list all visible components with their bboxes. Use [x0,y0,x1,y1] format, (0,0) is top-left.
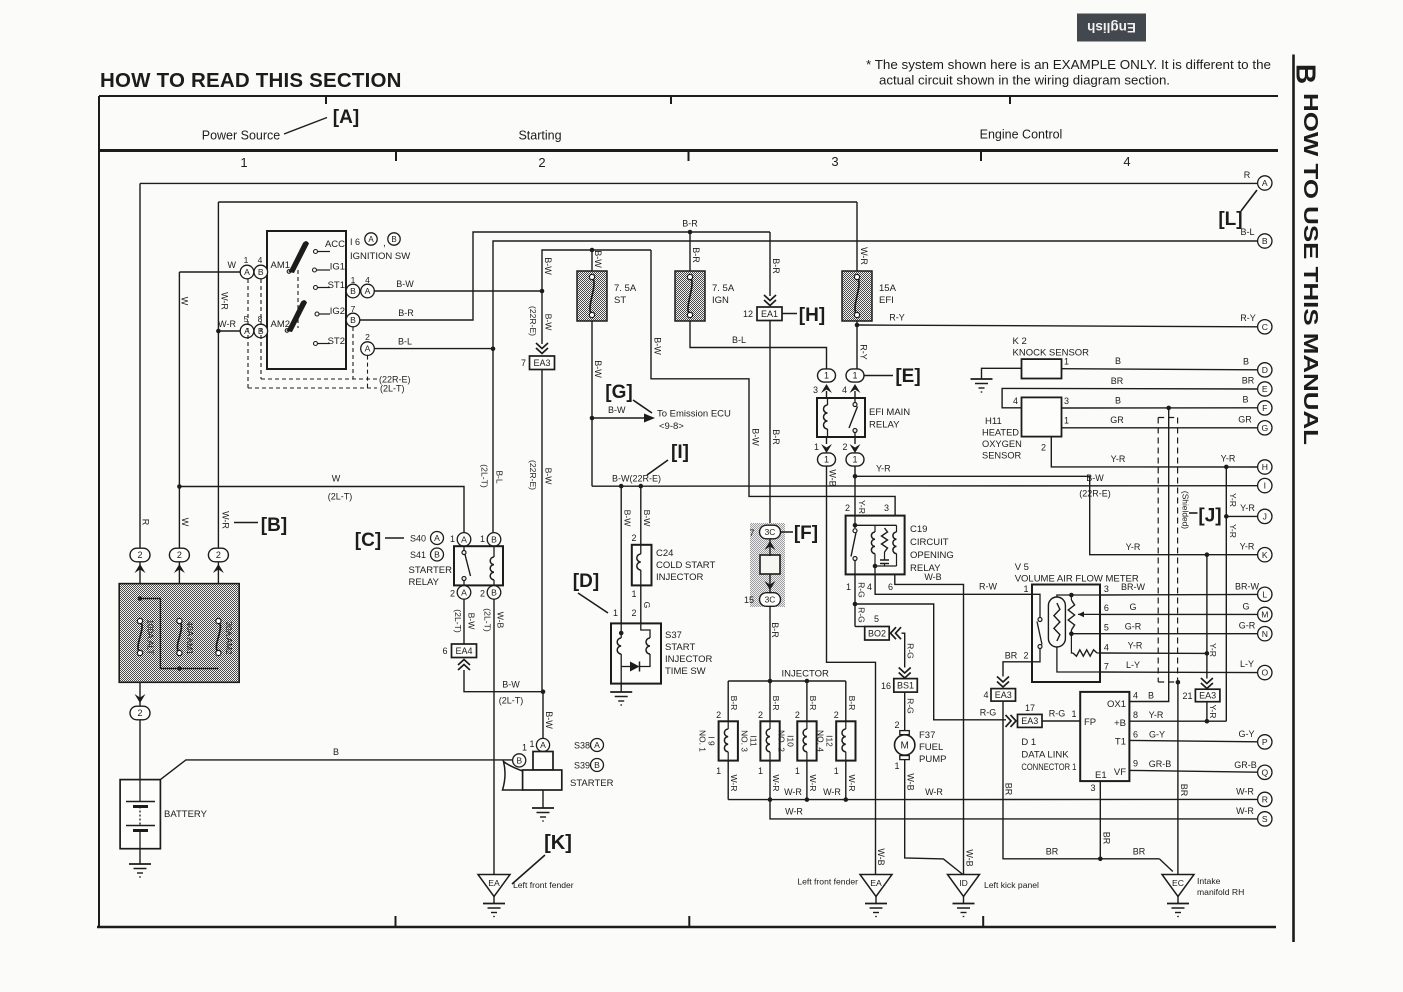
node junction injector3 top [805,679,810,684]
svg-text:I: I [1264,481,1266,491]
svg-text:manifold RH: manifold RH [1197,887,1244,897]
svg-text:VF: VF [1114,767,1126,778]
svg-text:1: 1 [351,275,356,285]
S37 internals [619,631,624,636]
dash from pin4 oval to [E] [865,375,894,377]
svg-text:B-W(22R-E): B-W(22R-E) [612,474,661,484]
svg-text:7: 7 [521,358,526,368]
wire B inside shield to data link connector [1129,408,1168,702]
ignition switch lever AM1 [289,241,310,273]
svg-text:R-Y: R-Y [1240,313,1256,323]
battery plates [126,801,155,803]
svg-text:B-W: B-W [653,337,663,355]
svg-text:COLD START: COLD START [656,560,715,571]
arrow up on W wire [174,564,185,573]
contact IG1 [313,268,317,272]
wire B-W down to starter pin A [542,692,544,739]
svg-text:V 5: V 5 [1015,562,1029,573]
tick on top line at 671 [670,96,672,104]
svg-text:L-Y: L-Y [1240,659,1254,669]
wire GR to terminal G [1062,427,1258,429]
svg-text:M: M [901,741,909,752]
node junction B-R above IGN fuse [688,230,693,235]
svg-text:1: 1 [852,371,857,381]
VAFM switch internals [1032,594,1040,617]
svg-text:W: W [332,474,341,484]
svg-text:W-R: W-R [808,774,818,791]
svg-text:B-W: B-W [467,613,477,631]
svg-text:B-R: B-R [847,696,857,711]
svg-text:Q: Q [1261,767,1268,777]
svg-text:S: S [1262,814,1268,824]
frame bottom line [97,926,1276,928]
node junction injector3 bottom [805,797,810,802]
svg-text:2: 2 [834,710,839,720]
wire BR to terminal E [1002,388,1258,407]
svg-text:BR: BR [1102,832,1112,845]
svg-text:Engine Control: Engine Control [980,128,1063,142]
svg-text:1: 1 [846,582,851,592]
svg-text:1: 1 [1064,357,1069,367]
svg-text:EA4: EA4 [455,646,472,656]
svg-text:B-W: B-W [608,405,626,415]
double chevron above BS1 [899,668,911,679]
svg-text:A: A [540,740,546,750]
wire R-G from C19 pin1 [854,574,856,626]
svg-text:B: B [333,747,339,757]
diagram frame top line [99,95,1278,97]
wire below EFI fuse [856,321,858,369]
svg-text:B-L: B-L [398,337,412,347]
svg-text:C: C [1262,322,1268,332]
svg-text:RELAY: RELAY [869,420,900,431]
wire R-G to BO2 [855,626,865,628]
svg-text:R: R [1262,794,1268,804]
svg-text:STARTER: STARTER [570,778,614,789]
svg-text:K: K [1262,550,1268,560]
ground symbol below battery [129,863,151,865]
svg-text:A: A [461,534,467,544]
svg-text:(2L-T): (2L-T) [328,492,353,502]
svg-text:ST: ST [614,295,626,306]
svg-text:A: A [368,235,374,244]
svg-text:ACC: ACC [325,239,345,250]
svg-text:1: 1 [894,761,899,771]
injector NO. 3 box [760,721,779,760]
svg-text:B-W: B-W [593,250,603,268]
svg-text:[A]: [A] [333,107,359,128]
wire G to terminal M [1100,613,1258,615]
node junction VAFM pot bottom [1069,631,1074,636]
svg-text:12: 12 [743,309,753,319]
frame left edge [98,96,100,927]
svg-text:B: B [391,235,396,244]
svg-text:2: 2 [842,442,847,452]
svg-text:1: 1 [834,766,839,776]
wire B-W to time switch pin1 [620,486,622,623]
EFI relay switch [853,403,857,407]
contact IG2 [315,312,319,316]
pointer line from EA to [K] [512,855,545,884]
svg-text:R-G: R-G [857,582,867,598]
svg-text:15: 15 [744,595,754,605]
svg-text:FP: FP [1084,717,1096,728]
svg-text:4: 4 [842,385,847,395]
wire B from battery to starter [160,760,512,780]
injector NO. 1 box [719,721,738,760]
svg-text:B: B [1262,236,1268,246]
svg-text:17: 17 [1025,703,1035,713]
svg-text:[I]: [I] [671,442,689,463]
wire knock sensor to ground [982,368,1022,379]
ground symbol at knock sensor [971,378,993,380]
starter relay switch [462,551,466,555]
terminal circle A [1258,176,1272,190]
svg-text:HEATED: HEATED [982,428,1019,438]
terminal oval 1 (pin3) EFI relay [818,369,836,382]
svg-text:EA: EA [870,878,882,888]
node junction 40A AM1 bottom [177,666,182,671]
connector box EA3 pin 7 [530,356,555,370]
svg-text:B-W: B-W [396,279,414,289]
svg-text:4: 4 [1013,396,1018,406]
svg-text:2: 2 [795,710,800,720]
svg-text:W: W [180,518,190,527]
injector NO. 2 lower wire [806,761,808,800]
wire W-R S row [770,800,1258,819]
tick below separator at 981 [980,151,982,162]
wire G-Y from T1 to terminal P [1129,740,1257,741]
svg-text:B: B [491,534,497,544]
EFI main relay box [817,398,865,437]
svg-text:actual circuit shown in the wi: actual circuit shown in the wiring diagr… [879,73,1170,88]
shield dashed bottom [1158,681,1176,683]
svg-text:A: A [244,326,250,336]
svg-text:[J]: [J] [1198,506,1221,527]
svg-text:2: 2 [758,710,763,720]
svg-text:EA3: EA3 [995,690,1012,700]
arrow up below 3C upper [765,541,776,550]
svg-text:+B: +B [1114,718,1126,729]
wire Y-R to terminal J [1226,515,1257,517]
wire B-W(22R-E) horizontal to terminal I [592,485,1258,488]
svg-text:Left kick panel: Left kick panel [984,880,1039,890]
svg-text:(22R-E): (22R-E) [528,306,538,336]
svg-text:I 6: I 6 [350,237,360,247]
svg-text:EA3: EA3 [1199,691,1216,701]
svg-text:T1: T1 [1115,737,1126,748]
svg-text:R-W: R-W [979,582,997,592]
heated oxygen sensor H11 box [1022,397,1062,436]
svg-text:8: 8 [1133,710,1138,720]
connector circle A starter relay top [457,533,471,547]
svg-text:W-B: W-B [906,773,916,790]
connector box EA1 pin 12 [757,307,782,321]
injector NO. 2 drop wire [806,681,808,721]
starter relay box [454,546,503,585]
svg-text:1: 1 [824,455,829,465]
svg-text:15A: 15A [879,283,897,294]
VAFM wiper arrow [1078,613,1100,615]
arrow down above 3C lower [765,581,776,590]
svg-text:B: B [1242,395,1248,405]
arrow down below fusible link block [135,694,146,703]
VAFM lamp bottom to pin7 [1057,647,1100,672]
svg-text:9: 9 [1133,759,1138,769]
start injector time switch S37 box [611,623,661,683]
node junction B-W at EA3 branch [540,289,545,294]
svg-text:B-L: B-L [495,470,505,484]
svg-text:R-G: R-G [1049,709,1066,719]
injector NO. 4 coil [845,721,847,729]
connector oval 2 on W-R wire [208,548,228,562]
svg-text:BATTERY: BATTERY [164,809,208,820]
svg-text:,: , [383,238,386,249]
svg-text:Y-R: Y-R [1228,524,1238,538]
svg-text:Y-R: Y-R [1240,503,1255,513]
injector NO. 3 lower wire [769,761,771,800]
double chevron above EA3 4 [997,677,1009,688]
svg-text:* The system shown here is an: * The system shown here is an EXAMPLE ON… [866,57,1271,72]
wire G-R to terminal N [1100,633,1258,635]
node junction time switch branch [639,484,644,489]
svg-text:1: 1 [758,766,763,776]
node junction injector4 bottom [844,797,849,802]
wire W-B from fuel pump to ID ground [905,760,964,875]
svg-text:3: 3 [813,385,818,395]
svg-text:INJECTOR: INJECTOR [782,669,829,680]
connector box BS1 [894,679,918,693]
svg-text:B-W: B-W [544,314,554,332]
terminal circle F [1258,401,1272,415]
terminal circle K [1258,548,1272,562]
3C connector shaded strip [750,523,785,607]
tick below separator at 396 [395,151,397,162]
internal bus of fusible link block [140,599,218,669]
svg-text:O: O [1261,668,1268,678]
dash line 3C to [F] [781,531,794,533]
svg-text:Y-R: Y-R [1240,542,1255,552]
svg-text:1: 1 [480,534,485,544]
svg-text:A: A [461,587,467,597]
svg-text:B-L: B-L [732,335,746,345]
svg-text:E: E [1262,384,1268,394]
starter ground wire [542,790,544,808]
English tab (inverted) [1077,14,1146,42]
C19 internals [853,523,858,528]
data link connector D1 box [1080,692,1129,781]
svg-text:R-G: R-G [857,607,867,623]
svg-text:2: 2 [631,608,636,618]
double chevron into EA3 7 [536,343,548,354]
arrow up pin3 [821,384,832,393]
wire below ST fuse [591,321,593,486]
connector oval 2 on R wire [130,548,150,562]
svg-text:B-R: B-R [398,308,414,318]
svg-text:R-G: R-G [906,643,916,659]
svg-text:Y-R: Y-R [1228,493,1238,507]
svg-text:M: M [1261,609,1268,619]
svg-text:K 2: K 2 [1013,336,1027,347]
fuel pump motor F37 [900,731,910,735]
battery box [120,780,160,849]
double chevron below EA4 [458,660,470,671]
connector box EA3 pin 4 [991,689,1016,702]
svg-text:B: B [1148,691,1154,701]
svg-text:B: B [350,315,356,325]
svg-text:R-Y: R-Y [859,344,869,360]
svg-text:6: 6 [888,582,893,592]
svg-text:W-R: W-R [220,292,230,310]
wire BR-W to terminal L [1100,593,1258,596]
sidebar divider line [1292,55,1295,943]
wire B-W up and right to fuse row [542,250,651,291]
node junction injector2 bottom [768,797,773,802]
connector circles B A at ST1 [346,284,360,298]
svg-text:BS1: BS1 [897,681,914,691]
svg-text:4: 4 [1133,691,1138,701]
svg-text:Left front fender: Left front fender [513,880,574,890]
svg-text:7: 7 [351,304,356,314]
node junction W wire [177,484,182,489]
terminal circle L [1258,587,1272,601]
svg-text:HOW TO USE THIS MANUAL: HOW TO USE THIS MANUAL [1299,93,1322,445]
svg-text:B-W: B-W [593,360,603,378]
svg-text:OPENING: OPENING [910,550,954,561]
svg-text:1: 1 [1071,709,1076,719]
svg-text:5: 5 [1104,623,1109,633]
wire W-R vertical [217,202,219,668]
svg-text:W-R: W-R [1236,806,1254,816]
wire R horizontal to terminal A [140,182,1258,184]
dash line [C] to S40 [385,537,404,539]
svg-text:Power Source: Power Source [202,129,281,143]
svg-text:5: 5 [874,614,879,624]
double chevron into EA1 [764,295,776,306]
pointer line from [D] [578,593,608,613]
svg-text:GR: GR [1238,415,1252,425]
svg-text:Y-R: Y-R [857,500,867,514]
wire B-L from IGN fuse to EFI main relay [690,321,827,369]
terminal circle A starter [536,738,549,751]
wire L-Y to terminal O [1100,671,1258,674]
shield dashed right [1177,418,1179,683]
svg-text:DATA LINK: DATA LINK [1021,750,1069,761]
svg-text:2: 2 [894,720,899,730]
svg-text:(Shielded): (Shielded) [1181,491,1191,529]
svg-text:4: 4 [258,255,263,265]
svg-text:SENSOR: SENSOR [982,451,1022,461]
terminal circle N [1258,627,1272,641]
svg-text:EA3: EA3 [533,358,550,368]
injector NO. 3 coil [769,721,771,729]
node junction R-G [853,602,858,607]
terminal circle S [1258,812,1272,826]
svg-text:EFI MAIN: EFI MAIN [869,407,910,418]
svg-text:2: 2 [845,503,850,513]
svg-text:3: 3 [884,503,889,513]
svg-text:IGNITION SW: IGNITION SW [350,251,410,262]
svg-text:2: 2 [480,589,485,599]
ground triangle EC [1162,875,1194,897]
svg-text:BR: BR [1179,784,1189,797]
svg-text:Starting: Starting [518,129,561,143]
svg-text:(2L-T): (2L-T) [499,696,524,706]
wire R vertical from top wire to battery [139,183,141,779]
wire below EA3 21 [1206,702,1208,722]
svg-text:4: 4 [1123,154,1130,169]
wire EA3 17 to DLC FP [1042,720,1080,722]
connector circle B at IG2 [346,313,360,327]
injector NO. 4 lower wire [845,761,847,800]
svg-text:W-R: W-R [847,774,857,791]
svg-text:INJECTOR: INJECTOR [656,572,703,583]
wire above IGN fuse [689,232,691,271]
svg-text:3: 3 [1104,584,1109,594]
svg-text:(22R-E): (22R-E) [1079,489,1111,499]
svg-text:A: A [365,286,371,296]
wire W-B(2L-T) from relay B2 to EA ground [493,599,495,874]
svg-text:(22R-E): (22R-E) [528,460,538,490]
svg-text:G-Y: G-Y [1238,729,1254,739]
svg-text:B-R: B-R [691,247,701,263]
wire S37 to ground [620,684,622,692]
svg-text:(2L-T): (2L-T) [483,608,493,632]
node junction shielded B [1166,406,1171,411]
node junction Y-R air flow [1205,651,1210,656]
svg-text:7. 5A: 7. 5A [614,283,637,294]
svg-text:BR: BR [1111,376,1124,386]
node junction K row [1205,552,1210,557]
starter relay coil [493,546,495,557]
svg-text:Y-R: Y-R [1149,710,1164,720]
svg-text:P: P [1262,737,1268,747]
svg-text:H: H [1262,462,1268,472]
svg-text:A: A [244,267,250,277]
svg-text:W-R: W-R [785,807,803,817]
svg-text:ST2: ST2 [328,336,345,347]
arrow up on W-R wire [213,564,224,573]
terminal oval 3C lower [760,593,781,607]
svg-text:PUMP: PUMP [919,754,946,765]
terminal circle J [1258,509,1272,523]
terminal circle D [1258,363,1272,377]
svg-text:3: 3 [1064,396,1069,406]
svg-text:STARTER: STARTER [409,565,453,576]
wire below EA4 to junction [464,670,543,692]
svg-text:W-R: W-R [729,774,739,791]
ground wire below battery [139,849,141,864]
dash from W-R label to [B] [234,522,258,524]
ignition switch lever AM2 [287,300,308,332]
wire Y-R from +B [1129,720,1226,722]
VAFM internal top bus [1057,595,1100,597]
svg-text:GR-B: GR-B [1234,760,1257,770]
svg-text:B-W: B-W [623,510,633,528]
svg-text:[L]: [L] [1218,209,1242,230]
svg-text:W-R: W-R [925,787,943,797]
fusible link 40A AM1 element [177,621,181,653]
svg-text:B: B [1291,64,1322,84]
ground triangle EA left [478,875,510,897]
svg-text:A: A [434,533,440,543]
svg-text:7. 5A: 7. 5A [712,283,735,294]
svg-text:OXYGEN: OXYGEN [982,439,1022,449]
node junction W-R [216,329,221,334]
svg-text:[K]: [K] [544,832,572,854]
svg-text:2: 2 [137,550,142,560]
wire Y-R from oxygen sensor to terminal H [1051,437,1257,467]
